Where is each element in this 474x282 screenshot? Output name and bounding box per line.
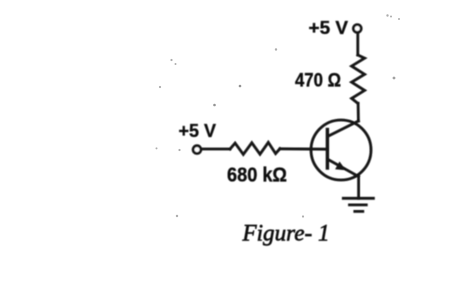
transistor Q1 base bar — [326, 130, 329, 169]
transistor Q1 collector lead — [329, 121, 359, 136]
wire terminal to R2 — [202, 148, 230, 151]
label 680 kohm — [227, 164, 287, 187]
label 470 ohm — [295, 71, 341, 92]
wire R2 to base — [280, 147, 327, 150]
terminal (collector supply) — [353, 25, 361, 33]
resistor R1 470 ohm — [352, 55, 365, 103]
ground — [343, 198, 373, 211]
caption Figure- 1 — [242, 220, 330, 246]
svg-text:+5 V: +5 V — [179, 120, 217, 141]
svg-text:470 Ω: 470 Ω — [295, 71, 341, 92]
transistor Q1 body — [311, 120, 371, 180]
wire supply to R1 — [356, 33, 359, 55]
resistor R2 680 kohm — [230, 142, 280, 154]
label +5 V (collector supply) — [309, 18, 349, 38]
svg-text:Figure- 1: Figure- 1 — [242, 220, 330, 246]
label +5 V (base supply) — [179, 120, 217, 141]
svg-text:680 kΩ: 680 kΩ — [227, 164, 287, 187]
wire R1 to collector — [357, 103, 360, 121]
svg-text:+5 V: +5 V — [309, 18, 349, 38]
transistor Q1 emitter lead — [328, 160, 359, 177]
transistor Q1 emitter arrow — [335, 162, 346, 171]
wire emitter to ground — [357, 177, 360, 199]
terminal (base supply) — [193, 146, 201, 154]
